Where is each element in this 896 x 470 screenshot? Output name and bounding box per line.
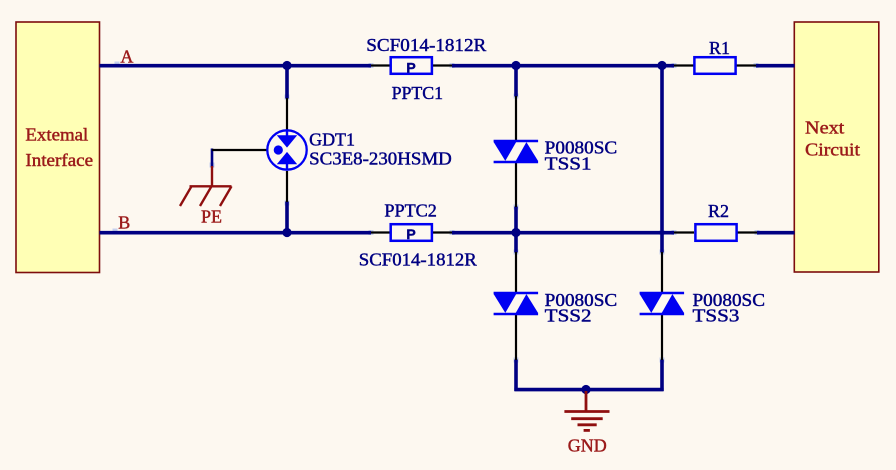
pptc PPTC2 pins <box>371 231 452 233</box>
label R2 <box>708 201 729 221</box>
wire bottom ground bus <box>514 388 663 392</box>
value label SC3E8-230HSMD <box>309 148 452 168</box>
svg-text:PPTC2: PPTC2 <box>384 201 437 221</box>
svg-text:R2: R2 <box>708 201 729 221</box>
wire TSS1 branch lower stub <box>514 207 518 235</box>
junction dot A-TSS1 <box>511 61 520 70</box>
svg-text:SCF014-1812R: SCF014-1812R <box>366 35 486 55</box>
svg-text:GND: GND <box>568 436 607 456</box>
TSS1 pins <box>515 96 517 207</box>
resistor R1 pins <box>674 64 756 66</box>
wire TSS3 branch upper <box>660 64 664 253</box>
junction dot B-TSS <box>511 228 520 237</box>
label TSS1 <box>545 138 618 174</box>
TSS3 pins <box>661 252 663 360</box>
value label SCF014-1812R (PPTC2) <box>359 250 477 270</box>
junction dot A-GDT <box>282 61 291 70</box>
wire GDT branch lower <box>285 202 289 235</box>
TSS2 pins <box>515 252 517 360</box>
svg-text:PPTC1: PPTC1 <box>392 83 444 103</box>
svg-text:GDT1: GDT1 <box>309 130 355 150</box>
pptc PPTC2 body <box>391 224 432 242</box>
wire TSS3 branch lower stub <box>660 360 664 392</box>
power port GND symbol <box>564 391 609 430</box>
svg-text:Interface: Interface <box>25 150 93 170</box>
svg-text:TSS2: TSS2 <box>545 306 592 326</box>
resistor R2 pins <box>674 231 757 233</box>
junction dot B-GDT <box>282 228 291 237</box>
net label B <box>118 213 130 233</box>
pptc PPTC1 pins <box>371 64 452 66</box>
svg-text:Extemal: Extemal <box>25 125 88 145</box>
svg-text:R1: R1 <box>709 38 730 58</box>
svg-text:TSS1: TSS1 <box>545 154 592 174</box>
power port PE symbol <box>180 166 232 206</box>
wire TSS2 branch upper stub <box>514 231 518 253</box>
gas discharge tube GDT1 pins <box>212 98 287 202</box>
junction dot A-TSS3 <box>657 61 666 70</box>
svg-text:PE: PE <box>201 207 222 227</box>
label PPTC1 <box>392 83 444 103</box>
svg-text:SC3E8-230HSMD: SC3E8-230HSMD <box>309 148 452 168</box>
pptc PPTC1 body <box>391 57 432 75</box>
wire net A segment left <box>100 64 372 68</box>
wire PE branch vertical <box>211 149 214 168</box>
wire net A segment right <box>756 64 795 68</box>
svg-text:SCF014-1812R: SCF014-1812R <box>359 250 477 270</box>
wire net B segment right <box>757 231 795 235</box>
label R1 <box>709 38 730 58</box>
value label SCF014-1812R (PPTC1) <box>366 35 486 55</box>
sheet symbol External Interface <box>16 22 100 273</box>
wire net B segment left <box>100 231 372 235</box>
label PPTC2 <box>384 201 437 221</box>
wire GDT branch upper <box>285 64 289 99</box>
sheet symbol Next Circuit <box>794 22 879 272</box>
label GND <box>568 436 607 456</box>
svg-text:A: A <box>120 46 133 66</box>
svg-text:B: B <box>118 213 130 233</box>
svg-text:Next: Next <box>805 117 844 137</box>
wire net A segment middle <box>452 64 674 68</box>
gas discharge tube GDT1 body <box>267 130 306 169</box>
wire net B segment middle <box>452 231 674 235</box>
junction dot GND bus <box>581 385 590 394</box>
svg-text:Circuit: Circuit <box>805 139 860 159</box>
net label A <box>120 46 133 66</box>
grid artifact markers <box>113 62 760 363</box>
wire TSS1 branch upper stub <box>514 64 518 97</box>
TSS2 body <box>494 293 538 314</box>
resistor R2 body <box>695 224 736 241</box>
label TSS2 <box>545 290 618 326</box>
svg-text:P: P <box>406 226 415 242</box>
svg-text:P: P <box>406 60 415 76</box>
wire TSS2 branch lower stub <box>514 360 518 392</box>
svg-text:TSS3: TSS3 <box>693 306 740 326</box>
label TSS3 <box>693 290 766 326</box>
label PE <box>201 207 222 227</box>
label GDT1 <box>309 130 355 150</box>
TSS3 body <box>640 293 685 314</box>
resistor R1 body <box>694 57 735 74</box>
TSS1 body <box>494 141 538 162</box>
